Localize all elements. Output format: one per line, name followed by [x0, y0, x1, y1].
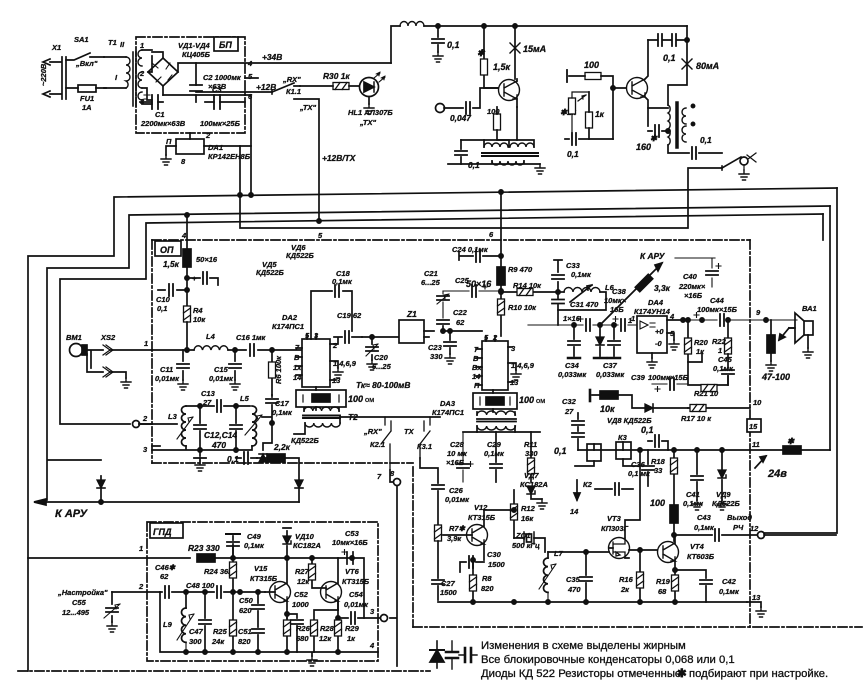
- svg-text:4: 4: [247, 59, 253, 68]
- ground: [364, 104, 374, 114]
- shield line bottom: [18, 670, 430, 672]
- svg-text:+34В: +34В: [262, 52, 282, 62]
- svg-text:0,01мк: 0,01мк: [155, 374, 180, 383]
- capacitor C10: [158, 289, 187, 291]
- svg-text:R7✱: R7✱: [449, 524, 466, 533]
- svg-text:С48 100: С48 100: [186, 581, 215, 590]
- svg-text:С1: С1: [155, 110, 165, 119]
- svg-text:С46✱: С46✱: [155, 563, 176, 572]
- wire base VT2: [613, 88, 626, 139]
- wire pin2 to L3: [139, 423, 177, 425]
- svg-text:620: 620: [239, 606, 252, 615]
- svg-text:R16: R16: [619, 575, 634, 584]
- svg-text:R26: R26: [296, 624, 311, 633]
- svg-text:С35: С35: [566, 575, 581, 584]
- svg-text:0,1: 0,1: [447, 40, 460, 50]
- svg-text:„RX": „RX": [282, 75, 301, 84]
- svg-text:С45: С45: [718, 355, 733, 364]
- svg-text:68: 68: [658, 587, 667, 596]
- svg-text:VД1-VД4: VД1-VД4: [178, 41, 211, 50]
- svg-text:КТ603Б: КТ603Б: [687, 552, 715, 561]
- wire bus1: [28, 188, 837, 671]
- svg-text:100: 100: [519, 395, 534, 405]
- svg-text:П: П: [166, 137, 172, 146]
- svg-text:160: 160: [636, 142, 651, 152]
- svg-text:6...25: 6...25: [421, 278, 441, 287]
- capacitor C14: [235, 406, 237, 450]
- transistor VT2: [627, 78, 648, 99]
- svg-text:+12В/ТХ: +12В/ТХ: [322, 153, 356, 163]
- svg-text:R10 10к: R10 10к: [508, 303, 537, 312]
- svg-text:7: 7: [377, 472, 382, 481]
- svg-text:К3: К3: [618, 433, 628, 442]
- svg-text:С24 0,1мк: С24 0,1мк: [452, 245, 489, 254]
- svg-text:24к: 24к: [211, 637, 225, 646]
- svg-text:L5: L5: [240, 394, 250, 403]
- svg-text:3: 3: [511, 344, 516, 353]
- svg-text:I: I: [115, 73, 118, 82]
- svg-text:ВМ1: ВМ1: [66, 333, 82, 342]
- volume pot 47-100: [770, 320, 772, 361]
- svg-text:2: 2: [139, 69, 145, 78]
- svg-text:470: 470: [567, 585, 581, 594]
- svg-text:Все блокировочные конденсаторы: Все блокировочные конденсаторы 0,068 или…: [481, 654, 735, 666]
- svg-text:L9: L9: [163, 620, 173, 629]
- svg-text:КД522Б: КД522Б: [291, 436, 320, 445]
- svg-text:×16Б: ×16Б: [446, 458, 465, 467]
- wire: [166, 133, 251, 155]
- svg-text:470: 470: [211, 440, 226, 450]
- svg-text:10мк×16Б: 10мк×16Б: [332, 538, 368, 547]
- svg-text:R30 1к: R30 1к: [323, 71, 350, 81]
- LED HL1: [360, 78, 379, 97]
- svg-text:820: 820: [238, 637, 251, 646]
- AGC rectifier chain: [263, 423, 272, 450]
- svg-text:С37: С37: [603, 361, 618, 370]
- capacitor 0,1: [565, 138, 613, 140]
- svg-text:+0: +0: [655, 327, 664, 336]
- capacitor C1: [144, 95, 150, 99]
- svg-text:R18: R18: [651, 457, 666, 466]
- svg-text:R4: R4: [193, 306, 203, 315]
- svg-text:0,1мк: 0,1мк: [244, 541, 265, 550]
- antenna relay contact: [722, 157, 741, 168]
- capacitor C20 variable: [362, 337, 399, 360]
- svg-text:24в: 24в: [767, 468, 787, 480]
- driver transformer: [484, 143, 534, 147]
- svg-text:✱: ✱: [677, 668, 686, 680]
- svg-text:1500: 1500: [488, 560, 506, 569]
- wire +34V rail: [178, 63, 391, 72]
- svg-text:6: 6: [489, 230, 494, 239]
- svg-text:33: 33: [654, 466, 663, 475]
- capacitor 0,1 output: [668, 145, 722, 153]
- svg-text:КР142ЕН8Б: КР142ЕН8Б: [208, 152, 251, 161]
- svg-text:С31 470: С31 470: [570, 300, 599, 309]
- svg-text:DА1: DА1: [208, 143, 223, 152]
- svg-text:2200мк×63В: 2200мк×63В: [140, 119, 186, 128]
- svg-text:27: 27: [564, 407, 574, 416]
- module box БП: [136, 37, 245, 133]
- svg-text:0,1: 0,1: [227, 454, 239, 464]
- transformer T3: [477, 411, 515, 415]
- svg-text:VТ3: VТ3: [607, 514, 622, 523]
- svg-text:К174ПС1: К174ПС1: [432, 408, 464, 417]
- attenuator pad: [296, 390, 346, 407]
- svg-text:8: 8: [181, 157, 186, 166]
- svg-text:ТХ: ТХ: [404, 427, 415, 436]
- svg-text:К2: К2: [583, 480, 593, 489]
- resistor R22: [727, 320, 729, 338]
- svg-text:„Настройка": „Настройка": [57, 588, 108, 597]
- svg-text:✱: ✱: [787, 436, 795, 446]
- svg-text:Диоды КД 522 Резисторы отмече: Диоды КД 522 Резисторы отмеченные: [481, 668, 681, 680]
- svg-text:0,033мк: 0,033мк: [558, 370, 587, 379]
- svg-text:С26: С26: [449, 486, 464, 495]
- svg-text:Изменения в схеме выделены жир: Изменения в схеме выделены жирным: [481, 640, 686, 652]
- svg-text:С54: С54: [349, 590, 364, 599]
- relay K2 coil: [587, 444, 601, 461]
- fuse FU1: [78, 85, 96, 92]
- label БП: [214, 37, 238, 51]
- svg-text:0,1мк: 0,1мк: [719, 587, 740, 596]
- svg-text:1к: 1к: [347, 634, 356, 643]
- legend capacitor symbol 1: [451, 641, 453, 669]
- svg-text:С12,С14: С12,С14: [204, 430, 237, 440]
- svg-text:330: 330: [430, 352, 443, 361]
- resistor 10k bold: [589, 390, 592, 401]
- svg-text:0,1: 0,1: [700, 135, 712, 145]
- svg-text:2: 2: [205, 131, 211, 140]
- svg-text:VД10: VД10: [295, 532, 315, 541]
- svg-text:50×16: 50×16: [196, 255, 218, 264]
- svg-text:14: 14: [570, 507, 579, 516]
- svg-text:0,1: 0,1: [554, 446, 567, 456]
- svg-text:С55: С55: [72, 598, 87, 607]
- svg-text:КТ315Б: КТ315Б: [468, 513, 496, 522]
- svg-text:16к: 16к: [521, 514, 534, 523]
- svg-text:2к: 2к: [620, 585, 630, 594]
- svg-text:1: 1: [140, 41, 144, 50]
- svg-text:С13: С13: [201, 389, 216, 398]
- svg-text:R25: R25: [213, 627, 228, 636]
- capacitor 0,1 bypass: [437, 26, 439, 52]
- wire signal: [152, 349, 302, 351]
- svg-text:47-100: 47-100: [761, 372, 790, 382]
- svg-text:1,5к: 1,5к: [163, 259, 180, 269]
- svg-text:КС182А: КС182А: [293, 541, 321, 550]
- meter 15mA: [514, 26, 516, 79]
- transformer T2: [304, 407, 339, 411]
- svg-text:„ТХ": „ТХ": [299, 103, 316, 112]
- svg-text:БП: БП: [219, 40, 232, 50]
- attenuator pad DA3: [473, 393, 517, 409]
- arrow 14: [574, 480, 580, 500]
- svg-text:С42: С42: [722, 577, 737, 586]
- ground: [161, 155, 171, 165]
- svg-text:„Вкл": „Вкл": [75, 59, 98, 68]
- svg-text:С16 1мк: С16 1мк: [236, 333, 267, 342]
- capacitor C15: [234, 350, 236, 380]
- svg-text:К АРУ: К АРУ: [640, 251, 666, 261]
- AGC line to K APY: [46, 476, 299, 502]
- transistor VT1: [499, 80, 520, 101]
- svg-text:R8: R8: [482, 574, 492, 583]
- svg-text:0,1мк: 0,1мк: [694, 523, 715, 532]
- svg-text:К174УН14: К174УН14: [634, 307, 671, 316]
- svg-text:820: 820: [481, 584, 494, 593]
- svg-text:15мА: 15мА: [523, 44, 546, 54]
- svg-text:„ТХ": „ТХ": [359, 118, 376, 127]
- svg-text:С51: С51: [238, 627, 252, 636]
- svg-text:5: 5: [248, 72, 253, 81]
- wire right v823: [822, 214, 824, 240]
- regulator DA1: [176, 139, 204, 154]
- svg-text:FU1: FU1: [80, 94, 94, 103]
- svg-text:1000: 1000: [292, 600, 310, 609]
- label ГПД: [150, 523, 183, 538]
- svg-text:2: 2: [138, 582, 144, 591]
- 24V line: [578, 449, 830, 451]
- svg-text:+12В: +12В: [256, 82, 276, 92]
- svg-text:С20: С20: [374, 353, 389, 362]
- svg-text:ГПД: ГПД: [153, 527, 172, 537]
- capacitor C3: [214, 95, 220, 109]
- svg-text:R24 36к: R24 36к: [204, 567, 233, 576]
- svg-text:R9 470: R9 470: [508, 265, 533, 274]
- svg-text:15: 15: [749, 422, 758, 431]
- svg-text:5: 5: [318, 231, 323, 240]
- svg-text:HL1 АЛ307Б: HL1 АЛ307Б: [348, 108, 393, 117]
- svg-text:~220В: ~220В: [39, 63, 48, 86]
- svg-text:100мк×15Б: 100мк×15Б: [648, 373, 689, 382]
- diode agc1: [259, 454, 267, 462]
- antenna jack XW: [740, 157, 748, 165]
- svg-text:100: 100: [584, 60, 599, 70]
- svg-text:0,033мк: 0,033мк: [596, 370, 625, 379]
- svg-text:2: 2: [332, 341, 338, 350]
- svg-text:1: 1: [718, 346, 722, 355]
- label ОП: [155, 241, 181, 256]
- svg-text:С30: С30: [487, 550, 502, 559]
- svg-text:ом: ом: [365, 395, 374, 404]
- svg-text:1500: 1500: [440, 588, 458, 597]
- svg-text:680: 680: [296, 634, 309, 643]
- svg-text:10к: 10к: [600, 404, 615, 414]
- module box ОП left edge: [151, 240, 153, 463]
- svg-text:62: 62: [456, 318, 465, 327]
- capacitor C12: [199, 406, 201, 450]
- wire tank bottom: [152, 446, 252, 456]
- svg-text:R12: R12: [521, 504, 536, 513]
- diode agc2: [295, 480, 303, 488]
- wire +12V: [245, 78, 272, 195]
- network below T3: [463, 431, 540, 433]
- svg-text:R20: R20: [694, 338, 709, 347]
- svg-text:„RX": „RX": [363, 427, 382, 436]
- svg-text:0,01мк: 0,01мк: [344, 600, 369, 609]
- svg-text:0,1мк: 0,1мк: [713, 364, 734, 373]
- svg-text:С10: С10: [156, 295, 171, 304]
- svg-text:С39: С39: [631, 373, 646, 382]
- resistor R20: [688, 320, 702, 362]
- svg-text:РЧ: РЧ: [733, 523, 744, 532]
- svg-text:С47: С47: [189, 627, 204, 636]
- svg-text:1: 1: [144, 339, 148, 348]
- svg-text:С15: С15: [214, 365, 229, 374]
- svg-text:С33: С33: [566, 261, 581, 270]
- svg-text:КТ315Б: КТ315Б: [342, 577, 370, 586]
- svg-text:Тк≈ 80-100мВ: Тк≈ 80-100мВ: [356, 380, 410, 390]
- svg-text:2: 2: [142, 414, 148, 423]
- svg-text:0,1мк: 0,1мк: [272, 408, 293, 417]
- svg-text:VД8 КД522Б: VД8 КД522Б: [607, 416, 652, 425]
- capacitor 0,1: [460, 140, 462, 164]
- svg-text:С2 1000мк: С2 1000мк: [203, 73, 242, 82]
- svg-text:13: 13: [752, 593, 761, 602]
- svg-text:12...495: 12...495: [62, 608, 90, 617]
- svg-text:С34: С34: [565, 361, 580, 370]
- wire: [142, 50, 152, 104]
- coupling capacitors: [648, 39, 687, 41]
- svg-text:С44: С44: [710, 296, 725, 305]
- svg-text:С40: С40: [683, 272, 698, 281]
- svg-text:С38: С38: [612, 287, 627, 296]
- svg-text:0,1: 0,1: [567, 149, 579, 159]
- svg-text:R19: R19: [656, 577, 671, 586]
- svg-text:1к: 1к: [595, 109, 605, 119]
- svg-text:1А: 1А: [82, 103, 92, 112]
- svg-text:ХS2: ХS2: [100, 333, 116, 342]
- svg-text:10к: 10к: [193, 315, 206, 324]
- svg-text:С50: С50: [239, 596, 254, 605]
- module box TX/RX right edge: [749, 240, 751, 627]
- svg-text:×16Б: ×16Б: [684, 291, 703, 300]
- svg-text:R22: R22: [712, 337, 727, 346]
- svg-text:R29: R29: [345, 624, 360, 633]
- svg-text:КТ315Б: КТ315Б: [250, 574, 278, 583]
- wire bus3: [60, 214, 823, 424]
- svg-text:ВА1: ВА1: [802, 304, 817, 313]
- svg-text:0,047: 0,047: [450, 113, 471, 123]
- svg-text:80мА: 80мА: [696, 61, 719, 71]
- svg-text:10 мк: 10 мк: [447, 449, 468, 458]
- svg-text:К1.1: К1.1: [286, 87, 301, 96]
- svg-text:С19 62: С19 62: [337, 311, 362, 320]
- svg-text:Т1: Т1: [108, 38, 117, 47]
- svg-text:К174ПС1: К174ПС1: [272, 322, 304, 331]
- svg-text:С36: С36: [631, 460, 646, 469]
- svg-text:VТ4: VТ4: [690, 542, 705, 551]
- svg-text:0,1: 0,1: [641, 425, 654, 435]
- wire top inner: [233, 544, 352, 558]
- svg-text:Z1: Z1: [406, 309, 417, 319]
- svg-text:1: 1: [628, 316, 632, 325]
- svg-text:2,2к: 2,2к: [273, 442, 291, 452]
- svg-text:L7: L7: [554, 549, 564, 558]
- svg-text:ом: ом: [536, 396, 545, 405]
- svg-text:КЦ405Б: КЦ405Б: [182, 50, 211, 59]
- module box ОП bottom edge: [152, 462, 413, 464]
- svg-text:DА3: DА3: [440, 399, 456, 408]
- svg-text:3,3к: 3,3к: [654, 283, 671, 293]
- svg-text:С43: С43: [697, 513, 712, 522]
- svg-text:0,01мк: 0,01мк: [445, 495, 470, 504]
- svg-text:50×16: 50×16: [466, 279, 492, 289]
- wire right v830: [829, 206, 831, 450]
- svg-text:SA1: SA1: [74, 35, 89, 44]
- svg-text:К АРУ: К АРУ: [55, 508, 89, 520]
- svg-text:КД522Б: КД522Б: [286, 251, 315, 260]
- svg-text:10мк×: 10мк×: [604, 296, 627, 305]
- svg-text:С53: С53: [345, 529, 360, 538]
- svg-text:✱: ✱: [650, 133, 658, 143]
- svg-text:4: 4: [369, 641, 375, 650]
- pin 15 box: [747, 419, 761, 432]
- svg-text:V15: V15: [254, 564, 268, 573]
- svg-text:подбирают при настройке.: подбирают при настройке.: [689, 668, 828, 680]
- svg-text:1х: 1х: [293, 363, 302, 372]
- capacitor C2: [195, 63, 197, 102]
- wire: [148, 52, 163, 95]
- svg-text:R17 10 к: R17 10 к: [681, 414, 712, 423]
- svg-text:VТ6: VТ6: [345, 567, 360, 576]
- svg-text:-0: -0: [655, 339, 662, 348]
- svg-text:6...25: 6...25: [372, 362, 392, 371]
- svg-text:3: 3: [143, 445, 148, 454]
- svg-text:II: II: [120, 40, 125, 49]
- gpd bottom rail: [160, 592, 378, 656]
- svg-text:С23: С23: [428, 343, 443, 352]
- svg-text:К3.1: К3.1: [417, 442, 432, 451]
- wire pins 4 5 6: [163, 92, 245, 95]
- svg-text:100: 100: [348, 394, 363, 404]
- svg-text:С49: С49: [247, 532, 262, 541]
- svg-text:0,1: 0,1: [157, 304, 167, 313]
- svg-text:С22: С22: [453, 308, 468, 317]
- legend diode symbol: [436, 641, 438, 668]
- svg-text:R28: R28: [320, 624, 335, 633]
- svg-text:62: 62: [160, 572, 169, 581]
- svg-text:3: 3: [370, 607, 375, 616]
- meter 80mA: [668, 26, 687, 105]
- svg-text:DА2: DА2: [282, 313, 298, 322]
- svg-text:1к: 1к: [696, 347, 705, 356]
- svg-text:0,1мк: 0,1мк: [571, 270, 592, 279]
- svg-text:VД9: VД9: [716, 490, 731, 499]
- svg-text:VД7: VД7: [524, 471, 539, 480]
- svg-text:0,1: 0,1: [468, 160, 480, 170]
- wire antenna rx drop: [240, 146, 722, 228]
- svg-text:300: 300: [189, 637, 202, 646]
- svg-text:0,1мк: 0,1мк: [484, 449, 505, 458]
- svg-text:L3: L3: [168, 412, 178, 421]
- wire bus2: [47, 206, 830, 500]
- svg-text:12: 12: [750, 524, 759, 533]
- svg-text:С21: С21: [424, 269, 438, 278]
- node: [249, 193, 253, 197]
- capacitor 0,047: [436, 104, 445, 113]
- capacitor C11: [182, 350, 184, 380]
- svg-text:4: 4: [181, 231, 187, 240]
- svg-text:ОП: ОП: [160, 245, 174, 255]
- svg-text:10: 10: [753, 398, 762, 407]
- svg-text:100мк×15Б: 100мк×15Б: [697, 305, 738, 314]
- svg-text:220мк×: 220мк×: [678, 282, 706, 291]
- svg-text:100: 100: [650, 498, 665, 508]
- pin 2: [133, 421, 140, 428]
- legend capacitor symbol 2: [459, 654, 477, 656]
